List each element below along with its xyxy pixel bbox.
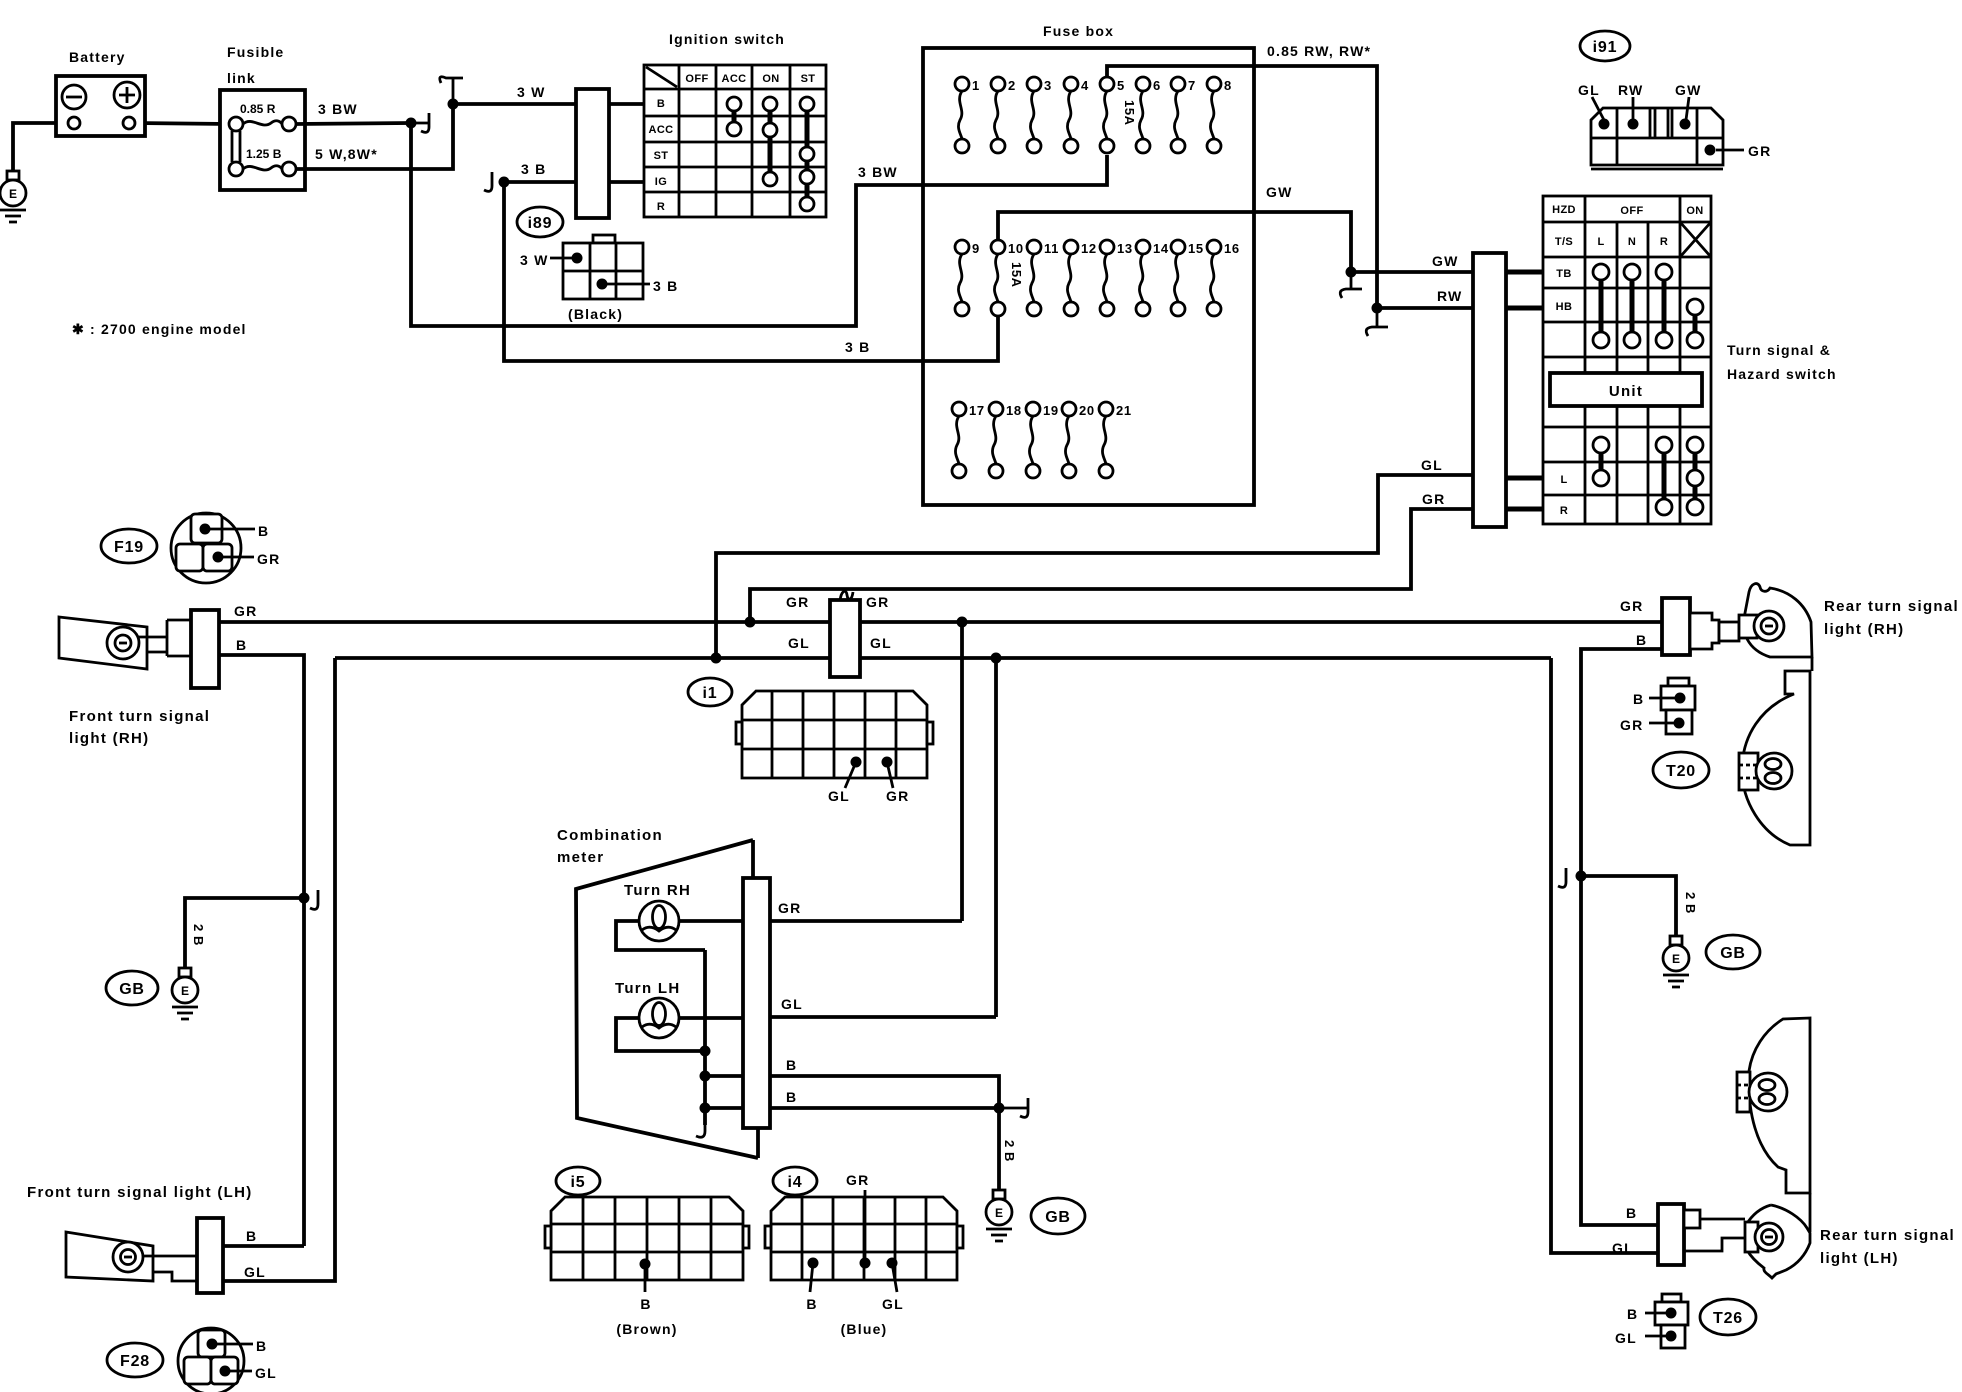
node RW junction: [1372, 303, 1383, 314]
meter connector bar: [743, 878, 770, 1128]
svg-text:GB: GB: [1045, 1209, 1071, 1226]
svg-text:L: L: [1597, 236, 1604, 248]
wire battery plus to fusible link: [135, 123, 229, 124]
svg-text:GL: GL: [870, 635, 892, 651]
ground E front: [172, 968, 198, 1019]
svg-text:GL: GL: [255, 1365, 277, 1381]
svg-text:ON: ON: [762, 73, 779, 85]
svg-text:B: B: [806, 1296, 817, 1312]
i91 connector box: [1578, 82, 1771, 169]
connector hook front B: [310, 890, 318, 909]
wire B front RH down: [219, 655, 304, 1246]
wire RW to switch connector: [1377, 306, 1473, 310]
svg-text:GL: GL: [1578, 82, 1600, 98]
svg-text:11: 11: [1044, 241, 1059, 256]
svg-text:E: E: [9, 187, 17, 201]
svg-text:GB: GB: [1720, 945, 1746, 962]
wire 3BW down and across: [411, 123, 923, 326]
wire GL meter vertical: [994, 658, 998, 1017]
svg-text:15A: 15A: [1009, 262, 1024, 288]
svg-text:GL: GL: [1612, 1240, 1634, 1256]
svg-text:Fuse box: Fuse box: [1043, 23, 1114, 39]
wire B meter lower: [770, 1106, 999, 1110]
connector hook above 3W junction: [440, 77, 463, 104]
wire 3B down to fuse box: [504, 182, 998, 361]
rear RH housing upper: [1744, 584, 1812, 657]
node GL switch branch: [711, 653, 722, 664]
fuses 1-8: [955, 77, 1232, 153]
connector hook B: [999, 1098, 1028, 1117]
svg-text:HZD: HZD: [1552, 204, 1576, 216]
front turn signal lamp LH: [66, 1232, 197, 1281]
svg-text:Rear turn signal: Rear turn signal: [1820, 1227, 1955, 1244]
svg-text:Turn RH: Turn RH: [624, 882, 691, 899]
wire connector to HB row: [1506, 306, 1543, 311]
rear RH plug: [1690, 613, 1719, 649]
node front B ground junction: [299, 893, 310, 904]
F19 connector face: [171, 513, 280, 583]
svg-text:T/S: T/S: [1555, 236, 1573, 248]
svg-text:GR: GR: [1748, 143, 1771, 159]
svg-text:13: 13: [1117, 241, 1133, 256]
connector B/GR rear: [1620, 678, 1695, 734]
rear RH tail bulb: [1756, 753, 1792, 789]
svg-text:i4: i4: [788, 1174, 803, 1191]
connector i5: [556, 1167, 600, 1195]
svg-text:GL: GL: [244, 1264, 266, 1280]
svg-text:Unit: Unit: [1609, 383, 1643, 400]
svg-text:3 BW: 3 BW: [318, 101, 358, 117]
wire 2B to ground: [997, 1108, 1001, 1190]
svg-text:Combination: Combination: [557, 827, 663, 844]
connector hook 3BW: [411, 113, 429, 132]
connector T26: [1700, 1299, 1756, 1335]
ground E meter: [986, 1190, 1012, 1241]
connector hook meter ground: [696, 1125, 705, 1137]
svg-text:ST: ST: [801, 73, 816, 85]
svg-text:GL: GL: [882, 1296, 904, 1312]
svg-text:5: 5: [1117, 78, 1125, 93]
svg-text:14: 14: [1153, 241, 1169, 256]
connector i91: [1580, 31, 1630, 61]
ground E rear: [1663, 936, 1689, 987]
wire GL main right: [860, 656, 1551, 660]
svg-text:7: 7: [1188, 78, 1196, 93]
node 3BW junction: [406, 118, 417, 129]
svg-text:3 B: 3 B: [521, 161, 546, 177]
svg-text:Turn signal &: Turn signal &: [1727, 342, 1831, 358]
fuses 9-16: [955, 240, 1240, 316]
battery: [56, 76, 145, 136]
svg-text:T20: T20: [1666, 763, 1696, 780]
svg-text:GR: GR: [786, 594, 809, 610]
contacts L/R block: [1601, 445, 1695, 507]
svg-text:TB: TB: [1556, 268, 1571, 280]
ground GB front: [106, 971, 158, 1005]
svg-text:F28: F28: [120, 1353, 150, 1370]
svg-text:light (RH): light (RH): [1824, 621, 1904, 638]
svg-text:RW: RW: [1437, 288, 1462, 304]
svg-text:3 B: 3 B: [653, 278, 678, 294]
connector hook 3B: [484, 172, 492, 191]
ignition contacts ACC column: [732, 104, 737, 129]
svg-text:E: E: [995, 1206, 1003, 1220]
F28 connector face: [178, 1328, 277, 1392]
X cell: [1680, 222, 1711, 257]
svg-text:1.25 B: 1.25 B: [246, 147, 282, 161]
svg-text:GR: GR: [778, 900, 801, 916]
rear RH housing lower: [1742, 671, 1810, 845]
combination meter outline: [576, 840, 758, 1158]
svg-text:light (RH): light (RH): [69, 730, 149, 747]
svg-text:GW: GW: [1432, 253, 1459, 269]
connector (Black) box: [520, 235, 678, 322]
svg-text:0.85 R: 0.85 R: [240, 102, 276, 116]
svg-text:light (LH): light (LH): [1820, 1250, 1899, 1267]
svg-text:i5: i5: [571, 1174, 586, 1191]
rear LH plug: [1684, 1210, 1700, 1228]
svg-text:Ignition switch: Ignition switch: [669, 31, 785, 47]
svg-text:Front turn signal: Front turn signal: [69, 708, 210, 725]
wire 3W to ignition connector: [453, 102, 576, 106]
connector F19: [101, 529, 157, 563]
ignition switch connector bar: [576, 89, 609, 218]
svg-text:3: 3: [1044, 78, 1052, 93]
svg-text:Fusible: Fusible: [227, 44, 284, 60]
svg-text:ACC: ACC: [721, 73, 746, 85]
wire connector to TB row: [1506, 270, 1543, 275]
svg-text:R: R: [657, 201, 665, 213]
front RH connector block: [191, 610, 219, 688]
svg-text:link: link: [227, 70, 256, 86]
svg-text:21: 21: [1116, 403, 1132, 418]
wire 3BW to fuse 5: [923, 155, 1107, 185]
svg-text:B: B: [657, 98, 665, 110]
svg-text:B: B: [1627, 1306, 1638, 1322]
wire GL meter: [770, 1015, 996, 1019]
flasher unit: [830, 591, 860, 677]
svg-text:GR: GR: [234, 603, 257, 619]
wire connector to L row: [1506, 476, 1543, 481]
wire 2B front ground: [185, 898, 304, 968]
front LH connector block: [197, 1218, 223, 1293]
unit box: [1550, 373, 1702, 406]
fusible link: [220, 90, 305, 190]
svg-text:2 B: 2 B: [1683, 892, 1698, 914]
connector i4: [773, 1167, 817, 1195]
rear LH housing upper: [1749, 1018, 1810, 1193]
wire 3B ignition: [504, 180, 576, 184]
ignition switch table: [644, 65, 826, 217]
node GL meter branch: [991, 653, 1002, 664]
svg-text:8: 8: [1224, 78, 1232, 93]
svg-text:R: R: [1660, 236, 1668, 248]
ground E battery: [0, 171, 26, 222]
wire B front LH: [223, 1244, 304, 1248]
node B junction: [994, 1103, 1005, 1114]
svg-text:(Brown): (Brown): [616, 1321, 677, 1337]
wire 3B inside fuse box to fuse 10: [923, 316, 998, 361]
svg-text:16: 16: [1224, 241, 1240, 256]
svg-text:10: 10: [1008, 241, 1024, 256]
svg-text:B: B: [786, 1057, 797, 1073]
svg-text:OFF: OFF: [685, 73, 708, 85]
svg-text:3 B: 3 B: [845, 339, 870, 355]
svg-text:E: E: [181, 984, 189, 998]
svg-text:GW: GW: [1266, 184, 1293, 200]
node GR branch: [745, 617, 756, 628]
wire 3BW fusible to junction: [296, 123, 411, 124]
wire GR main left: [219, 620, 830, 624]
svg-text:15A: 15A: [1122, 100, 1137, 126]
node 3B junction: [499, 177, 510, 188]
svg-text:GL: GL: [828, 788, 850, 804]
rear LH bulb: [1755, 1223, 1783, 1251]
node GR meter branch: [957, 617, 968, 628]
ground GB meter: [1031, 1198, 1085, 1234]
wire 0.85RW from fuse 5: [1107, 66, 1377, 308]
svg-text:HB: HB: [1556, 301, 1573, 313]
connector i1: [688, 678, 732, 706]
svg-text:GR: GR: [1422, 491, 1445, 507]
connector i89: [517, 207, 563, 237]
node rear B ground junction: [1576, 871, 1587, 882]
ground GB rear: [1706, 935, 1760, 969]
svg-text:i1: i1: [703, 685, 718, 702]
fuses 17-21: [952, 402, 1132, 478]
svg-text:6: 6: [1153, 78, 1161, 93]
svg-text:GL: GL: [788, 635, 810, 651]
svg-text:ST: ST: [654, 150, 669, 162]
i1 connector box: [736, 691, 933, 804]
rear RH bulb: [1754, 611, 1784, 641]
svg-text:3 W: 3 W: [520, 252, 549, 268]
svg-text:E: E: [1672, 952, 1680, 966]
svg-text:✱ : 2700 engine model: ✱ : 2700 engine model: [72, 321, 247, 337]
svg-text:N: N: [1628, 236, 1636, 248]
front turn signal lamp RH: [59, 617, 191, 669]
svg-text:B: B: [256, 1338, 267, 1354]
connector hook GW: [1340, 272, 1362, 298]
svg-text:ON: ON: [1686, 205, 1703, 217]
rear LH bulb socket: [1745, 1222, 1758, 1252]
svg-text:L: L: [1560, 474, 1567, 486]
svg-text:IG: IG: [655, 176, 667, 188]
contacts TB/HB block: [1601, 272, 1695, 340]
svg-text:GR: GR: [846, 1172, 869, 1188]
svg-text:OFF: OFF: [1620, 205, 1643, 217]
node GW junction: [1346, 267, 1357, 278]
svg-text:GL: GL: [1421, 457, 1443, 473]
svg-text:B: B: [1633, 691, 1644, 707]
svg-text:B: B: [258, 523, 269, 539]
svg-text:GR: GR: [257, 551, 280, 567]
i5 connector box: [545, 1197, 749, 1337]
rear RH connector block: [1662, 598, 1690, 655]
svg-text:R: R: [1560, 505, 1568, 517]
wire GL rear LH vertical: [1551, 658, 1658, 1253]
wire GL main left: [335, 656, 830, 660]
wire fuse 10 to GW: [998, 212, 1351, 272]
connector F28: [107, 1343, 163, 1377]
svg-text:Turn LH: Turn LH: [615, 980, 680, 997]
rear LH tail bulb socket: [1737, 1072, 1750, 1112]
svg-text:3 BW: 3 BW: [858, 164, 898, 180]
svg-text:GR: GR: [866, 594, 889, 610]
rear RH tail bulb socket: [1739, 753, 1758, 790]
rear RH right edge: [1811, 657, 1814, 671]
wire GL front LH vertical: [223, 658, 335, 1281]
svg-text:meter: meter: [557, 849, 604, 866]
svg-text:18: 18: [1006, 403, 1022, 418]
svg-text:GR: GR: [1620, 717, 1643, 733]
svg-text:B: B: [1636, 632, 1647, 648]
connector B/GL rear LH: [1615, 1294, 1688, 1348]
turn signal switch connector bar: [1473, 253, 1506, 527]
svg-text:B: B: [1626, 1205, 1637, 1221]
wire GW to switch connector: [1351, 270, 1473, 274]
svg-text:GL: GL: [781, 996, 803, 1012]
svg-text:(Blue): (Blue): [841, 1321, 888, 1337]
rear LH connector block: [1658, 1204, 1684, 1265]
turn signal and hazard switch table: [1543, 196, 1711, 524]
wire 2B rear ground: [1581, 876, 1676, 936]
svg-text:12: 12: [1081, 241, 1097, 256]
fuse box: [923, 48, 1254, 505]
wire GR main right: [860, 620, 1662, 624]
svg-text:17: 17: [969, 403, 985, 418]
svg-text:T26: T26: [1713, 1310, 1743, 1327]
svg-text:2 B: 2 B: [1002, 1140, 1017, 1162]
svg-text:B: B: [786, 1089, 797, 1105]
connector hook RW: [1366, 308, 1388, 336]
svg-text:i89: i89: [528, 215, 553, 232]
svg-text:Front turn signal light (LH): Front turn signal light (LH): [27, 1184, 253, 1201]
rear LH housing lower: [1746, 1205, 1810, 1278]
rear LH tail bulb: [1749, 1073, 1787, 1111]
svg-text:GL: GL: [1615, 1330, 1637, 1346]
svg-text:GR: GR: [1620, 598, 1643, 614]
svg-text:Battery: Battery: [69, 49, 126, 65]
svg-text:i91: i91: [1593, 39, 1618, 56]
wire connector to R row: [1506, 507, 1543, 512]
svg-text:F19: F19: [114, 539, 144, 556]
ignition contacts ON column: [768, 104, 773, 179]
wire GR meter vertical: [960, 622, 964, 921]
svg-text:5 W,8W*: 5 W,8W*: [315, 146, 378, 162]
wire GR switch to main: [750, 509, 1473, 622]
svg-text:1: 1: [972, 78, 980, 93]
wire ignition connector to table row IG: [609, 180, 644, 184]
connector hook rear B: [1558, 868, 1566, 887]
svg-text:Hazard switch: Hazard switch: [1727, 366, 1837, 382]
svg-text:(Black): (Black): [568, 306, 623, 322]
svg-text:B: B: [640, 1296, 651, 1312]
wire B meter upper: [770, 1076, 999, 1108]
svg-text:0.85 RW, RW*: 0.85 RW, RW*: [1267, 43, 1371, 59]
wire meter common ground: [703, 950, 707, 1125]
svg-text:9: 9: [972, 241, 980, 256]
svg-text:4: 4: [1081, 78, 1089, 93]
wire GL switch to main: [716, 475, 1473, 658]
svg-text:20: 20: [1079, 403, 1095, 418]
wire ignition connector to table row B: [609, 102, 644, 106]
svg-text:GB: GB: [119, 981, 145, 998]
wire 5W,8W fusible link out: [296, 104, 453, 169]
svg-text:2: 2: [1008, 78, 1016, 93]
svg-text:3 W: 3 W: [517, 84, 546, 100]
svg-text:GW: GW: [1675, 82, 1702, 98]
svg-text:B: B: [246, 1228, 257, 1244]
wire B rear RH: [1581, 649, 1662, 1225]
svg-text:RW: RW: [1618, 82, 1643, 98]
rear RH bulb socket: [1739, 615, 1757, 638]
rear LH right edge: [1809, 1193, 1812, 1232]
i4 connector box: [765, 1172, 963, 1337]
wire battery minus to ground: [13, 123, 68, 171]
wire GR meter: [770, 919, 962, 923]
node 3W junction: [448, 99, 459, 110]
ignition contacts ST column: [805, 104, 810, 204]
connector T20: [1653, 752, 1709, 788]
svg-text:ACC: ACC: [648, 124, 673, 136]
svg-text:15: 15: [1188, 241, 1204, 256]
svg-text:GR: GR: [886, 788, 909, 804]
svg-text:B: B: [236, 637, 247, 653]
svg-text:2 B: 2 B: [191, 924, 206, 946]
svg-text:19: 19: [1043, 403, 1059, 418]
svg-text:Rear turn signal: Rear turn signal: [1824, 598, 1959, 615]
